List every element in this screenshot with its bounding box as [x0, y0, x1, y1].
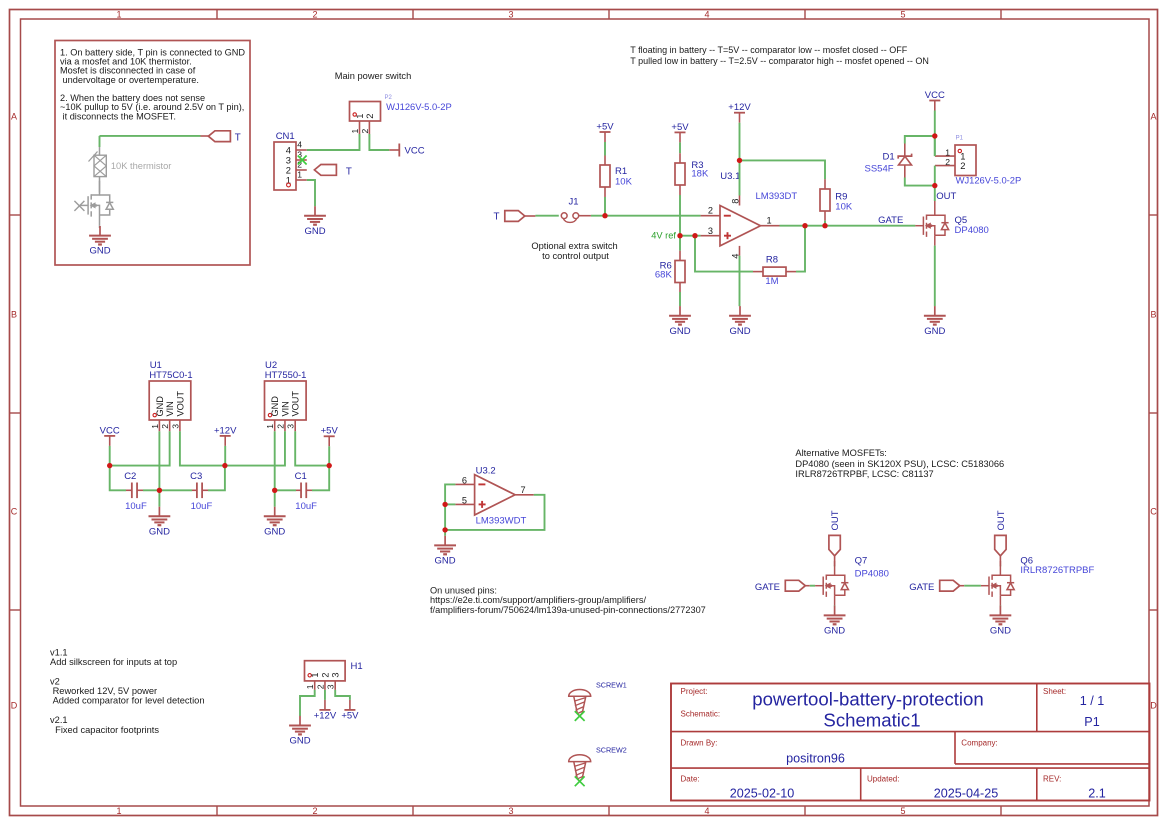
svg-text:GND: GND — [924, 326, 945, 337]
label Main power switch — [335, 71, 411, 81]
wire C1 to +5V node — [312, 466, 329, 491]
node junction +12V — [737, 158, 742, 163]
ground (CN1) — [304, 206, 326, 237]
10K thermistor (disconnected, gray) — [89, 147, 172, 177]
svg-text:4: 4 — [704, 806, 709, 816]
node junction output R8 — [802, 223, 807, 228]
svg-text:On unused pins:: On unused pins: — [430, 585, 497, 595]
node junction OUT — [932, 183, 937, 188]
ground (op-amp) — [729, 306, 751, 337]
svg-text:VIN: VIN — [165, 401, 175, 416]
note box with design notes — [55, 41, 250, 266]
node junction +12V rail — [222, 463, 227, 468]
resistor R6 68K — [655, 236, 685, 292]
resistor R9 10K — [820, 179, 853, 221]
port GATE — [755, 580, 810, 593]
port T (comparator input) — [494, 211, 536, 223]
wire +5V to R1 — [604, 142, 606, 156]
port T (CN1 pin 2) — [314, 165, 352, 178]
wire pin 4 to ground — [739, 256, 741, 307]
svg-text:10uF: 10uF — [295, 501, 317, 512]
svg-text:2: 2 — [360, 129, 370, 134]
capacitor C3 10uF — [190, 471, 212, 512]
wire P2.2 to VCC — [369, 134, 389, 150]
no-connect X on screw — [575, 711, 585, 721]
svg-text:H1: H1 — [351, 661, 363, 672]
svg-text:v1.1: v1.1 — [50, 648, 68, 658]
wire — [100, 135, 201, 137]
transistor Q6 IRLR8726TRPBF — [981, 555, 1095, 605]
svg-text:LM393WDT: LM393WDT — [476, 516, 527, 527]
svg-text:Company:: Company: — [961, 739, 997, 748]
resistor R1 10K — [600, 156, 633, 198]
wire Q5 source to ground — [934, 246, 936, 307]
svg-text:P1: P1 — [1084, 715, 1099, 729]
ground (note box) — [89, 226, 111, 257]
wire U2 gnd node to ground — [274, 490, 276, 506]
svg-text:1 / 1: 1 / 1 — [1080, 694, 1105, 708]
power flag +5V (regulators) — [321, 426, 339, 447]
resistor R8 1M — [753, 254, 796, 287]
wire U1 gnd node to ground — [158, 490, 160, 506]
svg-text:2: 2 — [315, 684, 325, 689]
svg-text:T floating in battery -- T=5V: T floating in battery -- T=5V -- compara… — [630, 45, 908, 55]
ground (R6) — [669, 306, 691, 337]
svg-text:10K: 10K — [835, 201, 853, 212]
wire CN1.4 to P2.1 — [307, 134, 360, 150]
svg-text:1: 1 — [767, 216, 772, 226]
svg-text:10K: 10K — [615, 176, 633, 187]
svg-text:WJ126V-5.0-2P: WJ126V-5.0-2P — [956, 174, 1022, 185]
svg-text:DP4080 (seen in SK120X PSU), L: DP4080 (seen in SK120X PSU), LCSC: C5183… — [795, 459, 1004, 469]
svg-text:R8: R8 — [766, 254, 778, 265]
port OUT (rotated) — [829, 510, 841, 556]
wire R1 to input node — [604, 197, 606, 216]
node junction VCC D1 — [932, 133, 937, 138]
power flag VCC (regulators) — [100, 425, 120, 446]
wire OUT port to drain — [834, 556, 836, 567]
svg-text:3: 3 — [508, 806, 513, 816]
wire node to pin5 — [445, 503, 455, 505]
note on unused pins — [430, 585, 706, 615]
svg-text:Q7: Q7 — [855, 555, 868, 566]
no-connect X on CN1 pin 3 — [298, 156, 307, 165]
svg-text:6: 6 — [462, 476, 467, 486]
wire gnd node to C3 — [159, 489, 192, 491]
svg-text:+5V: +5V — [341, 711, 359, 722]
svg-text:f/amplifiers-forum/750624/lm13: f/amplifiers-forum/750624/lm139a-unused-… — [430, 605, 706, 615]
svg-text:GATE: GATE — [909, 582, 934, 593]
no-connect X on screw — [575, 776, 585, 786]
comparator behaviour notes — [630, 45, 929, 66]
wire R6 to ground — [679, 292, 681, 306]
svg-text:Schematic:: Schematic: — [681, 710, 721, 719]
connector P2 WJ126V-5.0-2P — [350, 95, 452, 134]
node junction pin5 — [442, 502, 447, 507]
svg-text:GND: GND — [155, 396, 165, 417]
svg-text:GATE: GATE — [755, 582, 780, 593]
svg-text:Added comparator for level det: Added comparator for level detection — [50, 696, 205, 706]
wire +12V node to R9 — [740, 160, 826, 179]
wire pin6 to left rail — [445, 484, 455, 504]
svg-text:GND: GND — [669, 326, 690, 337]
wire VCC to rail — [109, 446, 111, 466]
screw SCREW2 — [569, 746, 627, 782]
svg-text:1: 1 — [310, 672, 320, 677]
svg-text:Fixed capacitor footprints: Fixed capacitor footprints — [50, 725, 159, 735]
svg-text:GND: GND — [149, 526, 170, 537]
op-amp U3.1 LM393DT — [701, 171, 798, 259]
wire left rail down — [444, 504, 446, 535]
svg-text:CN1: CN1 — [276, 131, 295, 142]
svg-text:REV:: REV: — [1043, 774, 1061, 783]
svg-text:GND: GND — [990, 626, 1011, 637]
svg-text:SS54F: SS54F — [865, 163, 894, 174]
capacitor C1 10uF — [295, 471, 318, 512]
svg-text:2: 2 — [708, 205, 713, 215]
ground (U2) — [264, 507, 286, 538]
wire H1.3 to +5V — [335, 690, 350, 700]
svg-text:U3.2: U3.2 — [476, 465, 496, 476]
connector H1 — [305, 661, 363, 690]
svg-text:VOUT: VOUT — [175, 391, 185, 417]
wire VCC rail to U1 VIN — [110, 431, 170, 465]
svg-text:68K: 68K — [655, 269, 673, 280]
svg-text:Updated:: Updated: — [867, 774, 899, 783]
ground — [824, 606, 846, 637]
svg-text:8: 8 — [730, 199, 740, 204]
svg-text:3: 3 — [508, 10, 513, 20]
connector P1 WJ126V-5.0-2P — [935, 135, 1021, 185]
port OUT (rotated) — [995, 510, 1007, 556]
wire 4V ref to comparator pin 3 — [680, 235, 701, 237]
svg-text:+12V: +12V — [314, 711, 337, 722]
wire U2 GND pin down — [274, 431, 276, 490]
svg-text:5: 5 — [900, 806, 905, 816]
wire U1 GND pin down — [158, 431, 160, 490]
wire P1.2 to OUT node — [934, 166, 936, 186]
node junction at R1 bottom — [602, 213, 607, 218]
wire C3 to +12V node — [208, 466, 225, 491]
svg-text:2: 2 — [275, 424, 285, 429]
svg-text:OUT: OUT — [936, 191, 956, 202]
svg-text:1: 1 — [297, 170, 302, 180]
wire OUT port to drain — [999, 556, 1001, 567]
svg-text:positron96: positron96 — [786, 752, 845, 766]
svg-text:3: 3 — [708, 226, 713, 236]
wire — [99, 136, 101, 147]
wire comparator output to GATE — [780, 225, 916, 227]
svg-text:P1: P1 — [956, 135, 964, 141]
svg-text:A: A — [11, 111, 17, 121]
svg-text:3: 3 — [170, 424, 180, 429]
wire +12V to pin 8 and R9 — [739, 123, 741, 196]
svg-text:OUT: OUT — [996, 510, 1007, 530]
svg-text:1: 1 — [945, 148, 950, 158]
wire +5V to R3 — [679, 142, 681, 153]
wire VCC rail down to C2 — [110, 466, 126, 491]
wire R9 to output — [824, 221, 826, 226]
svg-text:2: 2 — [312, 10, 317, 20]
svg-text:2025-04-25: 2025-04-25 — [934, 786, 998, 800]
svg-text:Optional extra switch: Optional extra switch — [531, 241, 617, 251]
svg-text:1: 1 — [305, 684, 315, 689]
svg-text:1: 1 — [265, 424, 275, 429]
svg-text:T: T — [346, 166, 352, 177]
mosfet (disconnected, gray) — [74, 181, 113, 226]
node junction feedback — [692, 233, 697, 238]
svg-text:VCC: VCC — [100, 425, 120, 436]
port GATE — [909, 580, 964, 593]
svg-text:2: 2 — [160, 424, 170, 429]
svg-text:10uF: 10uF — [191, 501, 213, 512]
svg-text:OUT: OUT — [830, 510, 841, 530]
svg-text:HT7550-1: HT7550-1 — [265, 369, 307, 380]
wire GATE to Q5 gate — [914, 225, 916, 227]
svg-text:VOUT: VOUT — [291, 391, 301, 417]
svg-text:GND: GND — [304, 226, 325, 237]
svg-text:to control output: to control output — [542, 251, 609, 261]
wire GATE port to gate — [810, 585, 815, 587]
wire D1 anode to OUT node — [905, 178, 935, 186]
svg-text:IRLR8726TRPBF: IRLR8726TRPBF — [1020, 565, 1094, 576]
svg-text:DP4080: DP4080 — [855, 569, 889, 580]
svg-text:v2: v2 — [50, 676, 60, 686]
svg-text:2: 2 — [945, 157, 950, 167]
svg-text:10K thermistor: 10K thermistor — [111, 161, 171, 171]
wire feedback from pin3 node to R8 — [695, 236, 753, 272]
svg-text:2: 2 — [960, 160, 965, 171]
svg-text:1: 1 — [116, 10, 121, 20]
node junction gnd rail — [442, 527, 447, 532]
wire C2 to gnd node — [143, 489, 159, 491]
svg-text:LM393DT: LM393DT — [756, 191, 798, 202]
svg-text:3: 3 — [286, 424, 296, 429]
ground (U3.2) — [434, 536, 456, 567]
svg-text:3: 3 — [326, 684, 336, 689]
svg-text:GND: GND — [264, 526, 285, 537]
svg-text:Reworked 12V, 5V power: Reworked 12V, 5V power — [50, 686, 157, 696]
node junction VCC rail — [107, 463, 112, 468]
svg-text:1: 1 — [150, 424, 160, 429]
wire OUT node to Q5 drain — [934, 186, 936, 201]
svg-text:Schematic1: Schematic1 — [823, 710, 920, 731]
svg-text:Date:: Date: — [681, 774, 700, 783]
svg-text:1M: 1M — [765, 276, 778, 287]
wire VCC down — [934, 111, 936, 157]
svg-text:2025-02-10: 2025-02-10 — [730, 786, 794, 800]
svg-text:WJ126V-5.0-2P: WJ126V-5.0-2P — [386, 101, 452, 112]
wire H1.2 to +12V — [324, 690, 326, 700]
power flag VCC (switch) — [389, 144, 424, 157]
svg-text:1: 1 — [350, 129, 360, 134]
svg-text:C1: C1 — [295, 471, 307, 482]
ground (H1) — [289, 716, 311, 747]
svg-text:GND: GND — [289, 736, 310, 747]
power flag +12V (regulators) — [214, 425, 237, 446]
svg-text:+5V: +5V — [596, 121, 614, 132]
wire VCC node to D1 cathode — [905, 136, 935, 144]
node junction +5V — [327, 463, 332, 468]
svg-text:+12V: +12V — [728, 102, 751, 113]
svg-text:VCC: VCC — [925, 90, 945, 101]
svg-text:Add silkscreen for inputs at t: Add silkscreen for inputs at top — [50, 657, 177, 667]
svg-text:T: T — [494, 211, 500, 222]
power flag +5V (H1) — [341, 700, 359, 722]
svg-text:T pulled low in battery -- T=2: T pulled low in battery -- T=2.5V -- com… — [630, 56, 929, 66]
svg-text:3: 3 — [331, 672, 341, 677]
wire (gray) — [99, 225, 101, 228]
svg-text:Main power switch: Main power switch — [335, 71, 411, 81]
wire H1.1 to ground — [300, 690, 315, 716]
svg-text:D: D — [1150, 700, 1157, 710]
regulator U1 HT75C0-1 — [149, 360, 192, 431]
power flag +12V (H1) — [314, 700, 337, 722]
wire output loop to gnd rail — [445, 495, 544, 530]
svg-text:VCC: VCC — [405, 146, 425, 157]
svg-text:Drawn By:: Drawn By: — [681, 739, 718, 748]
wire +12V rail to U2 VIN — [225, 431, 285, 465]
svg-text:J1: J1 — [568, 197, 578, 208]
port T (note box) — [201, 131, 241, 144]
svg-text:4: 4 — [704, 10, 709, 20]
wire T to J1 — [535, 215, 558, 217]
svg-text:+5V: +5V — [671, 122, 689, 133]
svg-text:undervoltage or overtemperatur: undervoltage or overtemperature. — [60, 75, 199, 85]
label GATE (comparator output net) — [878, 215, 903, 226]
node 4V ref label — [651, 230, 676, 240]
node junction U2 gnd — [272, 488, 277, 493]
svg-text:D: D — [11, 700, 18, 710]
wire source to ground — [999, 605, 1001, 608]
version history notes — [50, 648, 205, 735]
svg-text:2.1: 2.1 — [1088, 786, 1106, 800]
svg-text:SCREW1: SCREW1 — [596, 680, 627, 689]
svg-text:+5V: +5V — [321, 426, 339, 437]
svg-text:it disconnects the MOSFET.: it disconnects the MOSFET. — [60, 111, 176, 121]
power flag +12V — [728, 102, 751, 123]
wire (gray) — [99, 177, 101, 193]
svg-text:IRLR8726TRPBF, LCSC: C81137: IRLR8726TRPBF, LCSC: C81137 — [795, 469, 933, 479]
regulator U2 HT7550-1 — [265, 360, 307, 431]
ground (U1) — [149, 507, 171, 538]
wire +5V flag down — [328, 446, 330, 465]
transistor Q5 DP4080 — [915, 201, 989, 246]
wire source to ground — [834, 605, 836, 608]
svg-text:GATE: GATE — [878, 215, 903, 226]
node junction output R9 — [822, 223, 827, 228]
svg-text:v2.1: v2.1 — [50, 715, 68, 725]
svg-text:Project:: Project: — [681, 687, 708, 696]
svg-text:Alternative MOSFETs:: Alternative MOSFETs: — [795, 448, 886, 458]
wire R8 to output node — [796, 226, 805, 272]
svg-text:+12V: +12V — [214, 425, 237, 436]
screw SCREW1 — [569, 680, 627, 716]
svg-text:Sheet:: Sheet: — [1043, 687, 1066, 696]
power flag +5V (R3) — [671, 122, 689, 143]
label OUT net — [936, 191, 956, 202]
ground — [990, 606, 1012, 637]
wire U1 VOUT to +12V rail — [180, 431, 225, 465]
op-amp U3.2 LM393WDT (unused) — [455, 465, 533, 526]
svg-text:4V ref: 4V ref — [651, 230, 676, 240]
svg-text:2: 2 — [320, 672, 330, 677]
svg-text:P2: P2 — [385, 95, 393, 101]
wire R3 to 4V ref node — [679, 195, 681, 236]
jumper J1 — [561, 197, 591, 223]
svg-text:GND: GND — [824, 626, 845, 637]
wire J1 to comparator pin 2 — [591, 215, 701, 217]
svg-text:DP4080: DP4080 — [955, 225, 989, 236]
svg-text:C: C — [1150, 506, 1157, 516]
power flag +5V (R1) — [596, 121, 614, 142]
svg-text:HT75C0-1: HT75C0-1 — [149, 369, 192, 380]
capacitor C2 10uF — [124, 471, 147, 512]
svg-text:4: 4 — [297, 140, 302, 150]
svg-text:T: T — [235, 132, 241, 143]
svg-text:GND: GND — [89, 246, 110, 257]
node junction U1 gnd — [157, 488, 162, 493]
wire CN1.1 to ground — [307, 180, 315, 206]
svg-text:U3.1: U3.1 — [720, 171, 740, 182]
svg-text:2: 2 — [312, 806, 317, 816]
svg-text:1: 1 — [116, 806, 121, 816]
wire +12V flag down — [224, 446, 226, 466]
svg-text:powertool-battery-protection: powertool-battery-protection — [752, 688, 984, 709]
svg-text:18K: 18K — [691, 168, 709, 179]
svg-text:VIN: VIN — [280, 401, 290, 416]
svg-text:https://e2e.ti.com/support/amp: https://e2e.ti.com/support/amplifiers-gr… — [430, 595, 646, 605]
wire U2 gnd node to C1 — [275, 489, 296, 491]
svg-text:GND: GND — [270, 396, 280, 417]
power flag VCC (output) — [925, 90, 945, 111]
wire GATE port to gate — [964, 585, 981, 587]
svg-text:C2: C2 — [124, 471, 136, 482]
svg-text:C: C — [11, 506, 18, 516]
svg-text:D1: D1 — [883, 152, 895, 163]
label Optional extra switch — [531, 241, 617, 261]
diode D1 SS54F — [865, 144, 912, 178]
svg-text:GND: GND — [729, 326, 750, 337]
svg-text:10uF: 10uF — [125, 501, 147, 512]
svg-text:B: B — [1150, 309, 1156, 319]
wire U2 VOUT to +5V — [295, 431, 329, 465]
ground (Q5) — [924, 306, 946, 337]
node junction 4V ref — [677, 233, 682, 238]
svg-text:SCREW2: SCREW2 — [596, 746, 627, 755]
svg-text:7: 7 — [521, 485, 526, 495]
transistor Q7 DP4080 — [815, 555, 889, 605]
wire VCC node to P1.1 — [934, 136, 936, 156]
svg-text:C3: C3 — [190, 471, 202, 482]
connector CN1 — [274, 131, 307, 190]
svg-text:A: A — [1150, 111, 1156, 121]
title block — [671, 684, 1150, 801]
svg-text:2: 2 — [364, 113, 375, 118]
note alternative MOSFETs — [795, 448, 1004, 479]
svg-text:5: 5 — [900, 10, 905, 20]
resistor R3 18K — [675, 153, 709, 195]
svg-text:B: B — [11, 309, 17, 319]
svg-text:5: 5 — [462, 496, 467, 506]
svg-text:GND: GND — [435, 556, 456, 567]
